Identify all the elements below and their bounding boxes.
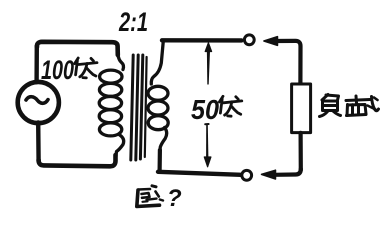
wire secondary bottom	[158, 172, 241, 175]
wire secondary bottom lead	[158, 150, 162, 172]
AC source sine symbol	[26, 97, 48, 104]
resistor load	[292, 84, 311, 133]
wire source bottom lead	[36, 123, 41, 162]
caption 图 (smudged figure label)	[137, 186, 163, 207]
wire primary top	[37, 42, 118, 55]
wire load top	[276, 41, 301, 83]
svg-text:50: 50	[191, 94, 219, 125]
wire load bottom	[274, 169, 301, 175]
glyph 伏 of 100伏	[75, 58, 97, 78]
svg-text:100: 100	[41, 55, 74, 85]
wire load bottom lead	[299, 133, 303, 170]
dimension line 50V upper (arrow up)	[207, 46, 210, 85]
glyph 伏 of 50伏	[219, 96, 241, 116]
label 負載 (load) : glyph 載	[346, 96, 379, 116]
svg-text:2:1: 2:1	[118, 7, 148, 37]
dimension line 50V lower (arrow down)	[206, 125, 208, 159]
transformer core laminations	[131, 55, 147, 160]
arrow to bottom terminal	[262, 170, 276, 179]
transformer T1 secondary winding	[148, 42, 168, 152]
label 負載 (load) : glyph 負	[320, 95, 341, 117]
terminal bottom	[242, 170, 252, 180]
wire left (source top lead)	[34, 46, 39, 82]
wire secondary top	[162, 38, 242, 43]
arrow to top terminal	[264, 37, 278, 46]
AC source G1	[18, 82, 59, 123]
wire primary bottom	[39, 155, 116, 166]
terminal top	[244, 35, 254, 45]
transformer T1 primary winding	[99, 54, 123, 159]
svg-text:?: ?	[167, 185, 182, 212]
